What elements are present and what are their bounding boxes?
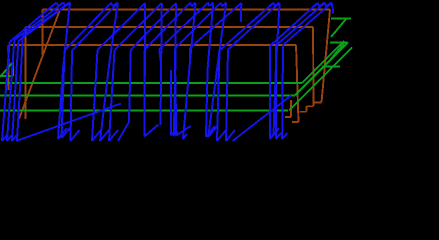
blue diagonal to 70a <box>18 3 70 42</box>
green stub 1 <box>331 18 351 20</box>
blue foot hook r11 <box>176 126 190 136</box>
green right diag 1 <box>302 41 344 83</box>
blue descent g10 <box>276 3 280 64</box>
brown right drop 2b <box>306 106 308 112</box>
brown rail 1 <box>43 9 331 11</box>
blue riser r12 stub <box>189 48 191 64</box>
blue riser r14 <box>226 50 228 142</box>
blue foot hook g7 <box>206 126 215 137</box>
brown left lean wire <box>19 10 60 120</box>
blue riser r10 stub <box>159 49 161 62</box>
blue crown drop at 110.9 <box>111 3 113 7</box>
blue foot hook g5 <box>174 131 178 136</box>
blue riser r11 <box>175 49 177 136</box>
blue descent g8 s2 <box>208 64 218 137</box>
green stub 3 <box>322 66 340 68</box>
brown left riser 1 <box>42 10 44 56</box>
blue diagonal to 110 <box>65 3 111 51</box>
blue foot hook r7 <box>109 130 118 141</box>
blue crown drop at 273.1 <box>273 3 275 7</box>
blue foot hook r16 <box>276 133 281 139</box>
blue diagonal to 279 <box>228 3 279 50</box>
blue foot hook g2 <box>100 130 109 141</box>
blue crown rise to 324.5 <box>319 3 324 7</box>
blue diagonal to 117 <box>72 3 118 51</box>
blue diagonal to 273 <box>220 3 274 51</box>
blue crown rise to 331.5 <box>326 3 331 7</box>
blue bottom long diagonal 2 <box>233 96 292 142</box>
blue crown drop at 207.6 <box>208 3 210 7</box>
blue foot hook g8 <box>208 126 217 137</box>
green rail 1 <box>0 82 302 84</box>
blue diagonal to 70b <box>23 2 70 36</box>
green z-diag 1 <box>331 19 346 37</box>
blue riser r3b <box>17 36 23 141</box>
blue mid stub <box>170 70 172 136</box>
blue foot hook r2 <box>7 135 12 141</box>
blue descent g10 s2 <box>274 64 277 135</box>
blue diagonal to 324 <box>276 3 325 46</box>
blue riser r6 <box>92 50 98 141</box>
blue diagonal to 207 <box>159 3 208 49</box>
blue descent g8 <box>218 3 226 64</box>
blue foot hook mid <box>171 131 175 136</box>
blue diagonal to 317 <box>270 3 318 46</box>
blue descent g4 <box>161 3 162 125</box>
blue descent g1 s2 <box>58 64 64 139</box>
blue diagonal to 331 <box>283 3 332 45</box>
blue descent g6 <box>190 3 196 64</box>
green stub 2 <box>330 42 347 44</box>
blue descent g2 <box>110 3 118 62</box>
brown right stub 1 <box>314 101 322 103</box>
blue crown drop at 189.9 <box>190 3 192 7</box>
blue apex turn g11 <box>332 3 334 11</box>
brown right drop 1 <box>322 10 331 103</box>
blue riser r1 <box>2 52 9 141</box>
blue riser r17 <box>281 45 284 139</box>
brown right drop 2 <box>312 27 315 106</box>
blue riser r2 s2 <box>13 40 16 47</box>
blue riser r9 <box>144 50 146 120</box>
blue crown drop at 63.5 <box>64 3 66 7</box>
blue crown rise to 70 <box>65 3 70 7</box>
blue foot hook r4 <box>62 128 71 138</box>
blue riser r7 <box>109 50 115 141</box>
blue bottom long diagonal 1 <box>16 104 121 142</box>
green right diag 2 <box>295 42 348 95</box>
blue diagonal to 241 <box>190 3 241 48</box>
green left diag 1 <box>0 62 13 77</box>
blue foot hook g1 <box>58 128 67 139</box>
green right diag 3 <box>289 48 352 111</box>
blue diagonal to 220 <box>175 3 221 49</box>
blue riser r4 <box>62 51 65 139</box>
blue foot hook r3 <box>12 135 17 141</box>
blue riser r8 <box>129 50 131 122</box>
green rail 2 <box>0 94 295 96</box>
blue crown drop at 56.5 <box>57 3 59 7</box>
blue diagonal to 56 <box>10 3 57 43</box>
brown right drop 3 <box>296 45 299 122</box>
blue foot hook r13 <box>217 130 226 141</box>
blue descent g5 <box>174 3 177 64</box>
brown right stub 2 <box>307 105 314 107</box>
blue crown rise to 226.1 <box>222 3 226 7</box>
green z-diag 2 <box>330 43 344 60</box>
blue descent g1 <box>64 3 71 65</box>
blue foot hook g6 <box>183 134 187 139</box>
blue foot hook r5 <box>71 130 80 141</box>
blue foot hook r6 <box>92 130 101 141</box>
blue riser r13 <box>217 51 220 142</box>
blue descent g6 s2 <box>183 64 190 139</box>
green left stub <box>0 75 13 77</box>
blue descent g2 s2 <box>100 62 110 141</box>
blue diagonal to 63 <box>15 3 64 41</box>
blue crown rise to 117.8 <box>113 3 118 7</box>
blue foot hook g3 <box>144 125 158 137</box>
blue diagonal to 175 <box>131 3 176 50</box>
blue foot hook r8 <box>118 122 129 141</box>
blue crown rise to 279.1 <box>275 3 279 7</box>
brown right drop 3b <box>290 100 292 117</box>
blue final descent g11 <box>332 10 334 14</box>
blue crown drop at 324.5 <box>325 3 327 7</box>
blue foot hook r14 <box>226 130 235 141</box>
blue riser r5 <box>71 51 73 142</box>
blue riser r3 <box>12 41 18 141</box>
green rail 3 <box>0 110 288 112</box>
brown right stub 3b <box>285 116 291 118</box>
blue descent g5 s2 <box>174 64 176 136</box>
blue descent g3 <box>143 3 146 137</box>
blue crown rise to 195.6 <box>192 3 196 7</box>
blue descent g9 <box>240 3 242 22</box>
brown left riser 3 <box>8 45 10 90</box>
brown rail 2 <box>26 26 314 28</box>
blue foot hook g10 <box>274 129 279 135</box>
brown rail 3 <box>9 44 297 46</box>
brown right stub 3 <box>292 121 299 123</box>
blue diagonal to 145 <box>98 3 146 50</box>
blue diagonal to 189 <box>145 3 190 50</box>
blue crown drop at 317.5 <box>318 3 320 7</box>
blue descent g7 s2 <box>206 70 208 137</box>
blue riser r16 <box>275 46 277 140</box>
blue foot hook r1 <box>2 135 7 141</box>
blue riser r1 s2 <box>8 42 11 52</box>
blue descent g7 <box>208 3 214 70</box>
blue crown drop at 220.5 <box>221 3 223 7</box>
blue crown rise to 213.2 <box>209 3 213 7</box>
blue crown rise to 63.5 <box>58 3 63 7</box>
blue foot hook r17 <box>282 133 287 139</box>
brown left riser 2 <box>25 27 27 119</box>
brown right stub 2b <box>300 111 307 113</box>
blue foot hook r15 <box>270 128 279 139</box>
blue riser r15 <box>269 46 271 139</box>
blue diagonal to 161 <box>115 3 162 50</box>
blue riser r2 <box>7 47 14 141</box>
green left leg <box>12 62 14 76</box>
